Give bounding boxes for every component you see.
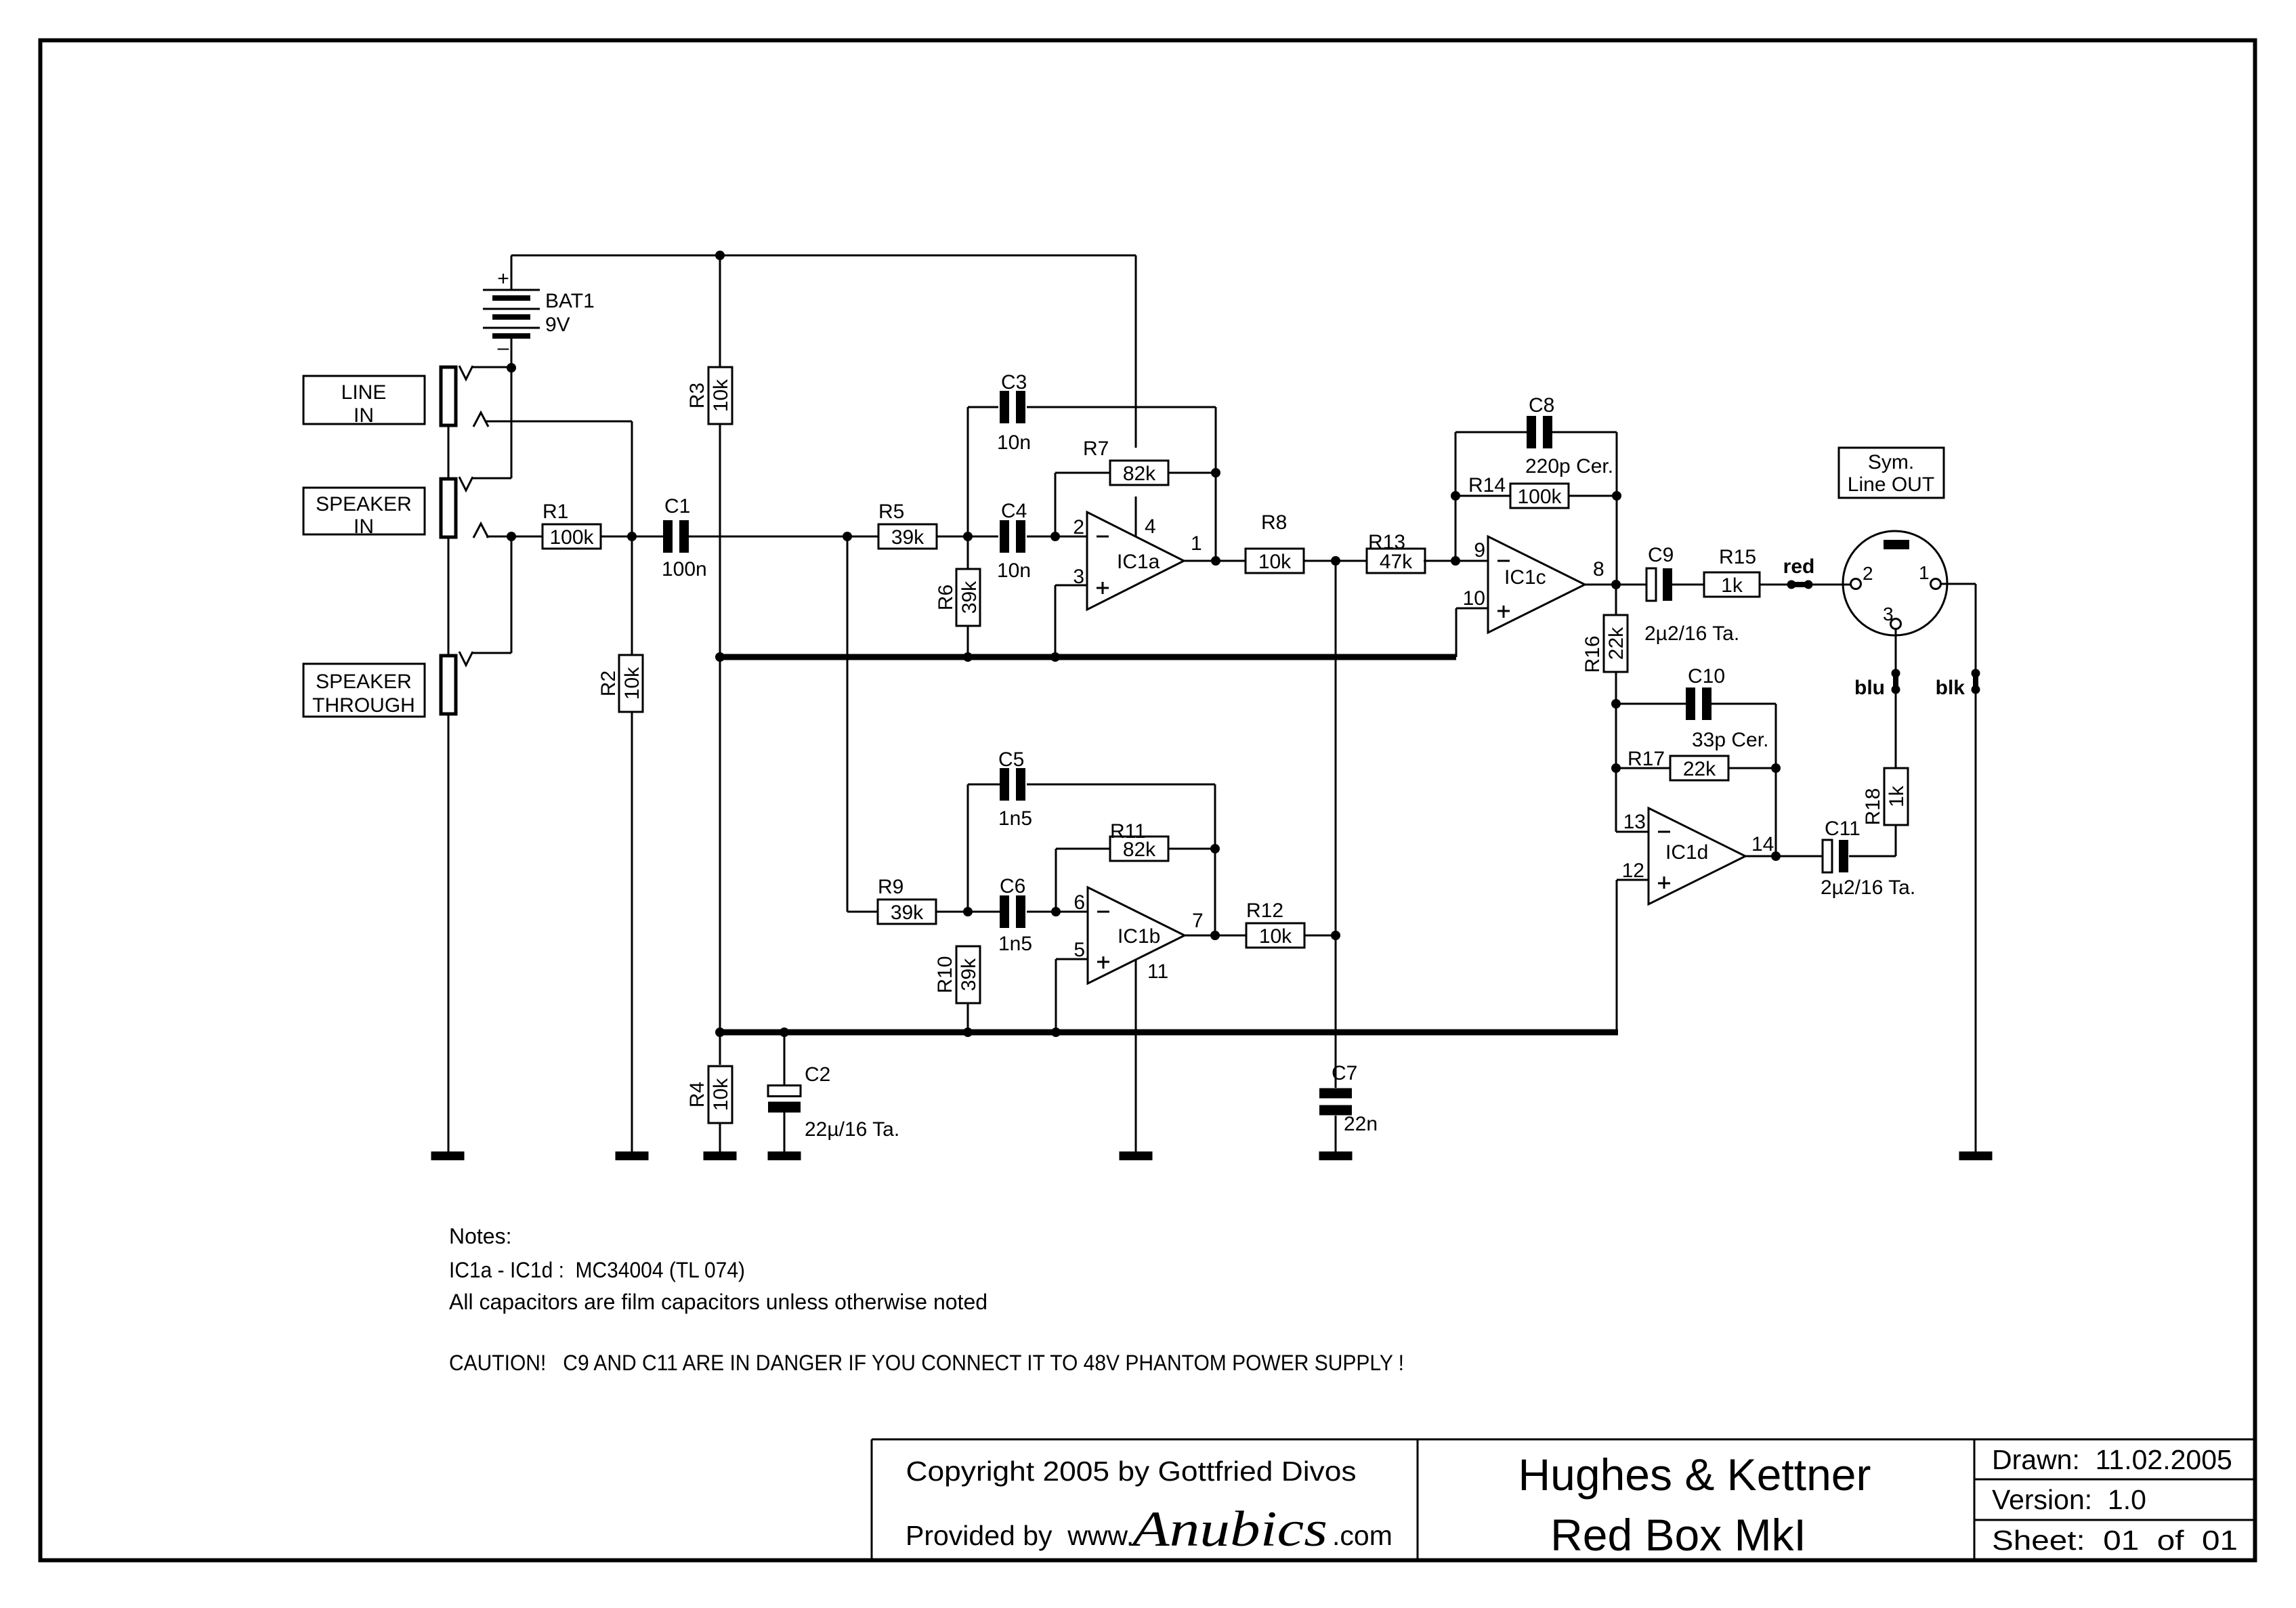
svg-text:6: 6	[1073, 891, 1085, 914]
ground (C2)	[768, 1151, 801, 1160]
svg-text:C1: C1	[664, 495, 690, 517]
wire R16 to C10 node	[1615, 672, 1617, 832]
op-amp IC1a	[1087, 512, 1184, 610]
wire C10 right riser	[1775, 704, 1777, 856]
svg-text:C2: C2	[805, 1063, 830, 1086]
wire R10 to bus2	[967, 1003, 969, 1032]
node sum node	[1331, 556, 1340, 566]
svg-text:9: 9	[1474, 539, 1485, 562]
node bus2 / C2	[780, 1028, 789, 1037]
op-amp IC1b	[1088, 887, 1185, 983]
svg-text:R12: R12	[1246, 900, 1283, 922]
wire IC1d pin12 wire	[1617, 879, 1649, 881]
svg-text:3: 3	[1073, 566, 1084, 588]
node output node c	[1611, 580, 1621, 589]
wire LINE IN tip	[486, 421, 632, 423]
svg-text:Drawn: 11.02.2005: Drawn: 11.02.2005	[1992, 1444, 2232, 1475]
node pin6 node	[1051, 907, 1061, 916]
wire IC1a output	[1184, 560, 1246, 562]
node C1 left node	[627, 532, 637, 541]
svg-text:SPEAKER: SPEAKER	[316, 671, 412, 693]
wire IC1b output	[1185, 935, 1247, 937]
wire C3/R7 feedback riser	[1215, 407, 1217, 561]
wire R7 left riser	[1055, 473, 1057, 536]
wire C10 left	[1616, 703, 1686, 705]
wire C10 right	[1711, 703, 1776, 705]
wire R11 right	[1168, 848, 1215, 850]
wire C2 to ground	[784, 1112, 786, 1151]
svg-text:R16: R16	[1581, 635, 1604, 673]
wire IC1a pin4 riser upper	[1135, 255, 1137, 448]
wire J3 switch wire	[472, 652, 511, 654]
wire C9 to R15	[1672, 584, 1704, 586]
svg-text:All capacitors are film capaci: All capacitors are film capacitors unles…	[449, 1290, 987, 1314]
svg-text:R13: R13	[1368, 531, 1405, 553]
svg-text:11: 11	[1147, 960, 1168, 983]
svg-text:1: 1	[1919, 562, 1930, 583]
wire C1 to R5 node	[689, 536, 847, 538]
wire node to R1	[511, 536, 543, 538]
wire riser to R9	[847, 911, 878, 913]
resistor R9	[878, 876, 936, 924]
svg-text:–: –	[498, 337, 509, 359]
wire IC1a pin4 riser lower	[1135, 496, 1137, 538]
wire node to J3 switch riser	[511, 536, 513, 653]
capacitor C2 (electrolytic)	[768, 1063, 899, 1141]
svg-text:Sheet: 01 of 01: Sheet: 01 of 01	[1992, 1525, 2238, 1556]
svg-text:4: 4	[1145, 515, 1156, 538]
capacitor C11 (electrolytic)	[1821, 818, 1915, 899]
svg-text:blk: blk	[1936, 677, 1965, 699]
svg-text:C8: C8	[1529, 394, 1554, 417]
wire IC1d pin12 riser	[1616, 880, 1618, 1032]
svg-text:IC1a - IC1d : MC34004 (TL 074: IC1a - IC1d : MC34004 (TL 074)	[449, 1258, 745, 1282]
wire split node to R5	[847, 536, 878, 538]
svg-text:100k: 100k	[1517, 486, 1562, 508]
wire IC1c pin10 wire	[1456, 608, 1488, 610]
jack J2 SPEAKER IN body	[441, 479, 456, 537]
svg-text:C10: C10	[1688, 665, 1725, 687]
node R14 left node	[1451, 491, 1460, 501]
svg-text:10k: 10k	[710, 379, 732, 412]
svg-text:10k: 10k	[1258, 551, 1292, 573]
label box SPEAKER IN	[303, 488, 425, 538]
resistor R14	[1468, 474, 1569, 508]
svg-text:C6: C6	[1000, 875, 1025, 897]
wire C11 to R18 corner	[1849, 855, 1896, 858]
svg-text:R8: R8	[1261, 511, 1287, 534]
svg-text:red: red	[1783, 555, 1815, 578]
node R5/C4/R6/C3 node	[963, 532, 973, 541]
svg-text:10n: 10n	[997, 431, 1031, 454]
resistor R8	[1246, 511, 1304, 573]
svg-text:Hughes & Kettner: Hughes & Kettner	[1518, 1450, 1871, 1500]
wire R15 to XLR pin2	[1760, 584, 1851, 586]
label box LINE IN	[303, 376, 425, 427]
ground (C7)	[1319, 1151, 1353, 1160]
svg-text:10k: 10k	[1259, 925, 1292, 948]
node output node d	[1771, 851, 1781, 861]
svg-text:10k: 10k	[621, 667, 643, 700]
wire C3 left	[968, 406, 998, 408]
svg-text:BAT1: BAT1	[545, 290, 595, 312]
node R9/C6/R10/C5 node	[963, 907, 973, 916]
svg-text:blu: blu	[1854, 677, 1885, 699]
wire battery - lead	[511, 336, 513, 368]
node battery minus node	[507, 363, 516, 373]
capacitor C1	[662, 495, 707, 580]
wire jack column J3 to ground	[448, 714, 450, 1151]
resistor R18	[1862, 768, 1908, 826]
node speaker-in node	[507, 532, 516, 541]
svg-text:22k: 22k	[1683, 758, 1716, 780]
svg-text:8: 8	[1593, 558, 1604, 580]
svg-text:CAUTION! C9 AND C11 ARE IN D: CAUTION! C9 AND C11 ARE IN DANGER IF YOU…	[449, 1351, 1404, 1375]
wire bus2 to C2	[784, 1032, 786, 1086]
wire R13 to pin9	[1424, 560, 1488, 562]
ground (IC1 pin11)	[1120, 1151, 1153, 1160]
svg-text:22n: 22n	[1344, 1113, 1378, 1135]
svg-text:47k: 47k	[1380, 551, 1413, 573]
ground (jacks)	[431, 1151, 465, 1160]
svg-text:R11: R11	[1110, 820, 1146, 843]
wire R8 to R13	[1304, 560, 1368, 562]
wire XLR pin1 right	[1941, 583, 1976, 585]
svg-text:2: 2	[1073, 516, 1084, 538]
svg-text:2: 2	[1863, 563, 1873, 584]
svg-text:IN: IN	[354, 404, 374, 427]
resistor R10	[934, 946, 980, 1003]
wire C5 left	[968, 784, 1000, 786]
svg-text:13: 13	[1623, 811, 1646, 833]
wire C5 right	[1027, 784, 1215, 786]
wire R6 to bus1	[967, 626, 969, 657]
resistor R17	[1628, 748, 1728, 780]
svg-text:R7: R7	[1083, 438, 1109, 460]
svg-text:12: 12	[1622, 860, 1644, 882]
wire R1 to node	[600, 536, 632, 538]
node R6 bus node	[963, 652, 973, 662]
wire R2 to ground	[631, 712, 633, 1151]
svg-text:Provided by www.: Provided by www.	[906, 1520, 1134, 1551]
wire R3 to bus1/bus2	[719, 424, 721, 1065]
jack J2 switch contact	[459, 477, 473, 490]
wire battery + riser	[511, 255, 513, 290]
capacitor C7	[1319, 1062, 1378, 1135]
node Vref bus2 tap	[715, 1028, 725, 1037]
svg-text:2µ2/16 Ta.: 2µ2/16 Ta.	[1644, 622, 1739, 645]
node Vref bus1 tap	[715, 652, 725, 662]
node pin5 bus node	[1051, 1028, 1061, 1037]
svg-text:3: 3	[1883, 604, 1894, 625]
wire IC1a pin3 riser	[1055, 585, 1057, 657]
svg-text:10k: 10k	[710, 1078, 732, 1111]
resistor R13	[1367, 531, 1425, 573]
capacitor C9 (electrolytic)	[1644, 544, 1739, 645]
wire IC1b pin5 riser	[1055, 959, 1057, 1032]
node pin3 bus node	[1050, 652, 1060, 662]
svg-text:39k: 39k	[891, 902, 924, 924]
connector X1 (XLR Sym. Line OUT)	[1843, 531, 1947, 635]
svg-text:1n5: 1n5	[998, 933, 1032, 955]
wire split node riser to R9	[847, 536, 849, 912]
svg-text:R4: R4	[686, 1082, 708, 1107]
svg-text:C5: C5	[998, 748, 1024, 771]
wire IC1b pin5 wire	[1056, 958, 1088, 960]
svg-text:R15: R15	[1719, 546, 1756, 568]
svg-text:Red Box MkI: Red Box MkI	[1550, 1510, 1806, 1560]
svg-text:IN: IN	[354, 515, 374, 538]
svg-text:C11: C11	[1825, 818, 1861, 840]
wire R14 left	[1455, 495, 1511, 497]
svg-text:C3: C3	[1001, 371, 1027, 394]
capacitor C5	[998, 748, 1032, 830]
wire marker blu	[1854, 669, 1900, 700]
svg-text:Anubics: Anubics	[1128, 1502, 1327, 1557]
svg-text:7: 7	[1192, 910, 1204, 932]
wire IC1a pin3 wire	[1055, 585, 1087, 587]
wire R7 right	[1168, 472, 1216, 474]
net Vref bus (upper)	[720, 654, 1456, 660]
svg-text:R2: R2	[597, 671, 620, 696]
battery BAT1 9V	[483, 268, 595, 359]
wire R18 bottom lead	[1895, 825, 1897, 856]
capacitor C4	[997, 500, 1031, 582]
wire XLR pin1 to ground	[1975, 584, 1977, 1151]
wire R17 left	[1616, 767, 1671, 769]
node C10 left node	[1611, 699, 1621, 708]
svg-text:1k: 1k	[1721, 574, 1743, 597]
node pin2 node	[1050, 532, 1060, 541]
label box Sym. Line OUT	[1839, 448, 1944, 498]
svg-text:33p Cer.: 33p Cer.	[1692, 729, 1768, 751]
svg-text:2µ2/16 Ta.: 2µ2/16 Ta.	[1821, 876, 1915, 899]
svg-text:C7: C7	[1332, 1062, 1357, 1084]
ground (R2)	[616, 1151, 649, 1160]
svg-text:10: 10	[1463, 587, 1485, 610]
svg-text:R17: R17	[1628, 748, 1665, 770]
net Vref bus (lower)	[720, 1030, 1618, 1036]
wire C3 right	[1027, 406, 1216, 408]
svg-text:Line OUT: Line OUT	[1848, 473, 1934, 496]
node filter split node	[843, 532, 852, 541]
svg-text:IC1b: IC1b	[1118, 925, 1160, 948]
node pin9 node	[1451, 556, 1460, 566]
wire C4 to IC1a pin2	[1027, 536, 1087, 538]
svg-text:Notes:: Notes:	[449, 1224, 511, 1248]
label box SPEAKER THROUGH	[303, 664, 425, 717]
wire R11 left riser	[1055, 849, 1057, 912]
svg-text:R10: R10	[934, 956, 956, 993]
wire C5/R11 feedback riser	[1214, 784, 1216, 935]
svg-text:+: +	[497, 268, 509, 290]
resistor R16	[1581, 615, 1628, 673]
resistor R2	[597, 655, 643, 712]
svg-text:220p Cer.: 220p Cer.	[1525, 455, 1613, 478]
svg-text:Sym.: Sym.	[1868, 451, 1914, 473]
jack J1 switch contact	[459, 366, 473, 379]
ground (XLR pin1)	[1959, 1151, 1993, 1160]
capacitor C8	[1525, 394, 1613, 478]
wire C8/R14 right riser	[1616, 432, 1618, 585]
svg-text:R14: R14	[1468, 474, 1506, 496]
wire IC1d pin13 wire	[1616, 831, 1649, 833]
svg-text:THROUGH: THROUGH	[312, 694, 415, 717]
wire jack column J1-J2	[448, 425, 450, 479]
svg-text:100n: 100n	[662, 558, 707, 580]
jack J2 tip contact	[473, 524, 488, 538]
node R7/C3 node	[1211, 468, 1220, 478]
svg-text:22µ/16 Ta.: 22µ/16 Ta.	[805, 1118, 899, 1141]
wire C8 right	[1552, 431, 1617, 433]
svg-text:IC1d: IC1d	[1665, 841, 1708, 864]
wire output to R16	[1615, 585, 1617, 615]
wire marker red	[1783, 555, 1815, 589]
node R14 right node	[1612, 491, 1621, 501]
wire sum node drop to C7	[1335, 561, 1337, 1088]
svg-text:C4: C4	[1001, 500, 1027, 522]
resistor R5	[878, 501, 937, 549]
svg-text:LINE: LINE	[341, 381, 387, 404]
svg-text:39k: 39k	[891, 526, 924, 549]
node R10 bus node	[963, 1028, 973, 1037]
op-amp IC1d	[1649, 808, 1745, 904]
svg-text:R6: R6	[935, 585, 957, 610]
wire IC1c pin10 riser	[1455, 608, 1458, 657]
wire SPEAKER IN tip	[486, 536, 511, 538]
svg-text:9V: 9V	[545, 314, 570, 336]
svg-text:Version: 1.0: Version: 1.0	[1992, 1484, 2146, 1515]
svg-text:R18: R18	[1862, 788, 1884, 825]
resistor R3	[686, 367, 732, 424]
wire R2 top	[631, 536, 633, 656]
wire C3 riser + R6 top	[967, 407, 969, 569]
resistor R7	[1083, 438, 1168, 485]
wire C7 to ground	[1335, 1116, 1337, 1151]
svg-text:Copyright 2005 by Gottfried Di: Copyright 2005 by Gottfried Divos	[906, 1456, 1357, 1487]
jack J3 SPEAKER THROUGH body	[441, 656, 456, 714]
svg-text:.com: .com	[1332, 1520, 1393, 1551]
resistor R11	[1110, 820, 1168, 861]
svg-text:SPEAKER: SPEAKER	[316, 493, 412, 515]
wire R4 to ground	[719, 1123, 721, 1151]
wire V+ top rail	[511, 255, 1136, 257]
node output/feedback node	[1211, 556, 1220, 566]
wire R5 to C4	[937, 536, 998, 538]
wire J2 switch wire	[472, 478, 511, 480]
jack J1 tip contact	[473, 412, 488, 427]
jack J1 LINE IN body	[441, 367, 456, 425]
wire R12 to sum node	[1304, 935, 1336, 937]
resistor R12	[1246, 900, 1304, 948]
wire C5 riser	[967, 784, 969, 912]
wire J1 switch to battery node	[472, 366, 511, 368]
svg-text:82k: 82k	[1123, 463, 1156, 485]
wire rail to R3	[719, 255, 721, 368]
svg-text:R5: R5	[878, 501, 904, 523]
svg-text:IC1a: IC1a	[1117, 551, 1160, 573]
node output/feedback node b	[1210, 931, 1220, 940]
op-amp IC1c	[1488, 536, 1585, 633]
svg-text:1: 1	[1191, 532, 1202, 555]
wire R9 to C6	[936, 911, 1000, 913]
svg-text:22k: 22k	[1605, 627, 1628, 660]
node top rail / R3	[715, 251, 725, 260]
svg-text:1n5: 1n5	[998, 807, 1032, 830]
resistor R6	[935, 569, 981, 626]
resistor R15	[1704, 546, 1760, 597]
wire J2 switch riser	[511, 368, 513, 478]
jack J3 switch contact	[459, 652, 473, 665]
svg-text:39k: 39k	[958, 580, 981, 614]
wire marker blk	[1936, 669, 1980, 700]
wire R18 top to XLR pin3	[1895, 629, 1897, 768]
node R17 right node	[1771, 763, 1781, 773]
svg-text:100k: 100k	[549, 526, 594, 549]
wire R17 right	[1728, 767, 1776, 769]
wire R14 right	[1568, 495, 1617, 497]
svg-text:R1: R1	[543, 501, 568, 523]
wire R11 left	[1056, 848, 1111, 850]
svg-text:5: 5	[1073, 939, 1085, 961]
wire jack column J2-J3	[448, 537, 450, 656]
wire node to C1	[632, 536, 663, 538]
capacitor C3	[997, 371, 1031, 454]
svg-text:39k: 39k	[958, 958, 980, 991]
node sum node lower	[1331, 931, 1340, 940]
svg-text:IC1c: IC1c	[1504, 566, 1546, 589]
capacitor C10	[1686, 665, 1768, 751]
ground (R4)	[704, 1151, 737, 1160]
svg-text:C9: C9	[1648, 544, 1674, 566]
wire C8 left	[1455, 431, 1527, 433]
wire R7 left	[1055, 472, 1111, 474]
svg-text:10n: 10n	[997, 559, 1031, 582]
resistor R4	[686, 1066, 732, 1123]
svg-text:1k: 1k	[1886, 785, 1908, 807]
wire C6 to IC1b pin6	[1027, 911, 1088, 913]
node R11/C5 node	[1210, 844, 1220, 853]
svg-text:R3: R3	[686, 383, 708, 408]
capacitor C6	[998, 875, 1032, 955]
resistor R1	[543, 501, 601, 549]
title block	[872, 1439, 2255, 1559]
wire LINE IN tip drop	[631, 421, 633, 536]
wire IC1b pin11 riser	[1135, 960, 1137, 1151]
svg-text:R9: R9	[878, 876, 903, 898]
wire pin9 feedback riser	[1455, 432, 1457, 561]
wire IC1c output	[1585, 584, 1647, 586]
wire IC1d output	[1745, 855, 1823, 858]
svg-text:14: 14	[1751, 833, 1774, 855]
node R17 left node	[1611, 763, 1621, 773]
